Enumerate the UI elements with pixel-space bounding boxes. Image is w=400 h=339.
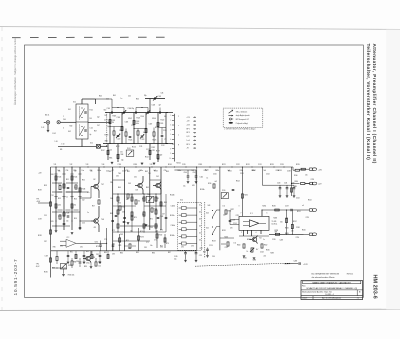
- svg-text:R85: R85: [136, 252, 139, 254]
- svg-text:R54: R54: [74, 199, 77, 201]
- wire cl3 feed caps: [174, 169, 196, 171]
- svg-text:C85: C85: [144, 247, 147, 249]
- capacitor C167: [207, 248, 209, 250]
- svg-text:R76: R76: [166, 243, 169, 245]
- trimmer arrow C102: [153, 96, 157, 100]
- svg-text:R40: R40: [70, 126, 73, 128]
- svg-text:R53: R53: [58, 198, 61, 200]
- stage1 vertical wire 2: [121, 113, 123, 144]
- transistor T48L: [94, 219, 98, 223]
- stage1 lower vertical 3: [149, 144, 151, 161]
- resistor R212: [225, 210, 227, 214]
- svg-text:TL 081: TL 081: [272, 221, 277, 223]
- transistor T50: [138, 183, 142, 187]
- cl2 vertical wire 3: [71, 167, 73, 230]
- wire cluster1 top to relay top: [96, 98, 113, 100]
- input BNC jack outer: [46, 121, 50, 125]
- svg-text:R190 10k: R190 10k: [68, 275, 75, 277]
- resistor R154: [119, 206, 121, 210]
- svg-text:R57: R57: [92, 206, 95, 208]
- wire after coupling box: [100, 145, 106, 147]
- svg-text:R159: R159: [159, 234, 163, 236]
- resistor R115: [113, 131, 115, 135]
- svg-text:4k7: 4k7: [112, 170, 115, 172]
- junction dot relay bottom: [81, 146, 82, 147]
- ground stage1 b: [141, 163, 144, 165]
- svg-text:C101: C101: [107, 108, 111, 110]
- svg-text:C112: C112: [161, 145, 165, 147]
- relay box top stub right: [95, 99, 97, 104]
- cluster1 link wire a: [110, 126, 122, 128]
- svg-text:C148: C148: [160, 216, 164, 218]
- svg-text:R120: R120: [134, 164, 138, 166]
- ground under IC b: [253, 258, 256, 260]
- title block header cell: [303, 281, 361, 284]
- svg-text:R263: R263: [247, 239, 251, 241]
- svg-text:1k: 1k: [247, 251, 249, 253]
- cluster1 dots: [109, 126, 110, 127]
- svg-text:R266: R266: [243, 258, 247, 260]
- trimmer pot P210: [221, 193, 228, 199]
- title block datum column divider: [312, 296, 314, 300]
- svg-text:1k0: 1k0: [58, 170, 61, 172]
- svg-text:C107: C107: [131, 125, 135, 127]
- switch wire b: [217, 226, 220, 228]
- svg-text:120k: 120k: [58, 204, 61, 206]
- ladder right rail: [196, 202, 198, 250]
- svg-text:C214: C214: [233, 223, 237, 225]
- svg-text:C106: C106: [140, 116, 144, 118]
- svg-text:2k2: 2k2: [82, 200, 85, 202]
- wire cl2 h1: [80, 197, 91, 199]
- ground stage1 a: [111, 162, 114, 164]
- stage1 vertical wire 1: [109, 113, 111, 144]
- bottom bus: [51, 250, 197, 252]
- trimmer arrow on C104: [146, 110, 150, 114]
- svg-text:Attenuator, Preamplifier Chann: Attenuator, Preamplifier Channel I (Chan…: [372, 44, 377, 164]
- svg-text:T48: T48: [101, 219, 104, 221]
- svg-text:4p: 4p: [90, 134, 92, 136]
- svg-text:C62a: C62a: [276, 170, 280, 172]
- T48L collector wire: [98, 217, 99, 219]
- svg-text:R67: R67: [142, 199, 145, 201]
- svg-text:R68: R68: [164, 202, 167, 204]
- stage1 vertical wire 4: [145, 113, 147, 144]
- svg-text:C248: C248: [294, 261, 298, 263]
- junction dot stage1: [133, 143, 134, 144]
- input jack ground: [47, 130, 50, 132]
- capacitor C113: [117, 135, 120, 136]
- svg-text:C108: C108: [120, 154, 124, 156]
- resistor R247 vertical: [291, 224, 293, 228]
- capacitor C105: [159, 111, 160, 114]
- svg-text:40V: 40V: [192, 185, 195, 187]
- svg-text:C118: C118: [125, 122, 129, 124]
- svg-text:C238: C238: [287, 171, 291, 173]
- svg-text:R52: R52: [82, 180, 85, 182]
- stage1 lower vertical 1: [107, 144, 109, 161]
- svg-text:C60: C60: [116, 176, 119, 178]
- extra stub wires cluster2: [54, 173, 57, 175]
- svg-text:C54: C54: [82, 223, 85, 225]
- resistor R117: [137, 131, 139, 135]
- svg-text:1n0: 1n0: [234, 243, 237, 245]
- stage1 lower vertical 2: [117, 144, 119, 163]
- svg-text:R60a: R60a: [98, 170, 102, 172]
- svg-text:90k: 90k: [164, 116, 167, 118]
- svg-text:p5: p5: [165, 139, 167, 141]
- svg-text:10.591-203-7: 10.591-203-7: [13, 259, 19, 296]
- resistor R190: [56, 256, 58, 260]
- svg-text:9p1: 9p1: [143, 132, 146, 134]
- svg-text:R252: R252: [308, 200, 312, 202]
- wire cl3 h1: [113, 193, 161, 195]
- relay switch blade lower: [80, 127, 85, 136]
- junction dot row2: [291, 183, 292, 184]
- svg-text:MS: MS: [60, 149, 62, 151]
- relay box top stub: [81, 99, 83, 104]
- svg-text:C 42: C 42: [41, 127, 44, 129]
- svg-text:C248: C248: [296, 227, 300, 229]
- extra cluster9 grounds: [67, 258, 69, 262]
- svg-text:R265: R265: [266, 250, 270, 252]
- resistor R193: [138, 236, 140, 240]
- switch contact dot b1: [212, 226, 213, 227]
- svg-text:C87: C87: [44, 241, 47, 243]
- svg-text:R112: R112: [116, 146, 120, 148]
- svg-text:BU 41: BU 41: [45, 115, 49, 117]
- svg-text:1n: 1n: [121, 98, 123, 100]
- bus junction dot: [174, 166, 175, 167]
- T48L base wire: [91, 220, 94, 222]
- svg-text:MP1: MP1: [105, 140, 108, 142]
- svg-text:R204: R204: [236, 181, 240, 183]
- right margin title line German: [366, 44, 371, 161]
- svg-text:C211: C211: [236, 215, 240, 217]
- trimmer pot P140: [146, 196, 154, 202]
- svg-text:n4: n4: [302, 205, 304, 207]
- svg-text:R56: R56: [74, 218, 77, 220]
- svg-text:C60a: C60a: [204, 170, 208, 172]
- svg-text:R62a: R62a: [178, 170, 182, 172]
- trimmer arrow C115: [140, 134, 144, 138]
- transistor T47: [94, 184, 98, 188]
- resistor R152: [127, 194, 129, 198]
- svg-text:Teilerschalter, Vorverstärker: Teilerschalter, Vorverstärker Kanal I (K…: [366, 44, 371, 161]
- resistor R102: [121, 126, 123, 130]
- legend row 1 symbol (trimmer arrow): [229, 110, 233, 113]
- electrolytic cap C166: [195, 250, 197, 252]
- bus junction dot: [103, 166, 104, 167]
- svg-text:C131: C131: [258, 164, 262, 166]
- resistor R142 on left bus: [50, 258, 52, 262]
- junction dots bus2: [106, 146, 107, 147]
- svg-text:R260: R260: [237, 244, 241, 246]
- page top edge: [0, 27, 400, 30]
- T51 leads: [160, 182, 161, 184]
- svg-text:R59: R59: [74, 170, 77, 172]
- svg-text:S 41: S 41: [90, 143, 93, 145]
- connector pin tick 2: [172, 119, 175, 121]
- svg-text:C105: C105: [117, 117, 121, 119]
- wire under IC: [239, 235, 269, 237]
- junction dot stage1: [109, 143, 110, 144]
- op-amp U2 triangle: [66, 239, 76, 247]
- ground T53: [90, 263, 92, 267]
- capacitor C114: [129, 136, 132, 137]
- svg-text:C81: C81: [80, 247, 83, 249]
- svg-text:1k: 1k: [207, 178, 209, 180]
- ladder contact 4: [182, 228, 187, 231]
- svg-text:C51: C51: [74, 187, 77, 189]
- svg-text:R126: R126: [132, 147, 136, 149]
- svg-text:R127: R127: [156, 151, 160, 153]
- svg-text:220: 220: [223, 215, 226, 217]
- wire to C248: [285, 263, 299, 265]
- capacitor C146: [115, 215, 118, 216]
- IC bottom pin 4: [260, 230, 262, 234]
- svg-text:b1: b1: [199, 205, 201, 207]
- svg-text:R103: R103: [136, 121, 140, 123]
- svg-text:3p9: 3p9: [160, 155, 163, 157]
- svg-text:R64: R64: [118, 187, 121, 189]
- svg-text:R45: R45: [113, 95, 116, 97]
- ground cl2 a: [55, 231, 58, 233]
- op-amp U2 output wire: [76, 242, 107, 244]
- svg-text:5 mV: 5 mV: [186, 140, 190, 142]
- svg-text:R63: R63: [166, 171, 169, 173]
- switch S1b dashed line: [106, 112, 108, 146]
- svg-text:5k6: 5k6: [264, 170, 267, 172]
- svg-text:T49: T49: [148, 173, 151, 175]
- junction dot IC top: [261, 209, 262, 210]
- svg-text:C137: C137: [45, 256, 49, 258]
- svg-text:↔25V: ↔25V: [198, 255, 202, 257]
- bus junction dot: [251, 166, 252, 167]
- svg-text:R144b: R144b: [170, 195, 175, 197]
- svg-text:47µ: 47µ: [174, 258, 177, 260]
- resistor R238 inline: [275, 233, 279, 235]
- svg-text:C59: C59: [164, 170, 167, 172]
- ladder contact 6: [182, 242, 187, 245]
- connector pin tick 6: [172, 138, 175, 140]
- right column vertical: [291, 167, 293, 196]
- svg-text:10n: 10n: [82, 170, 85, 172]
- svg-text:R139: R139: [38, 190, 42, 192]
- svg-text:S45: S45: [206, 228, 209, 230]
- svg-text:R82: R82: [86, 251, 89, 253]
- cl3 vertical wire 1: [112, 167, 114, 251]
- svg-text:C124: C124: [108, 150, 112, 152]
- input coupling circle: [57, 121, 60, 124]
- svg-text:R236: R236: [272, 206, 276, 208]
- svg-text:C200: C200: [213, 174, 217, 176]
- svg-text:22k: 22k: [110, 182, 113, 184]
- cluster1 top stub dots: [117, 107, 118, 108]
- svg-text:R146b: R146b: [170, 235, 175, 237]
- relay contact dots lower: [81, 126, 82, 127]
- junction dot stage1: [121, 143, 122, 144]
- capacitor C148: [157, 217, 160, 218]
- svg-text:C46: C46: [161, 93, 164, 95]
- svg-text:C165: C165: [174, 256, 178, 258]
- cl9 vertical a: [106, 228, 108, 251]
- svg-text:R125: R125: [153, 140, 157, 142]
- T53 leads: [90, 255, 91, 257]
- mechanical coupling box: [97, 144, 101, 148]
- svg-text:10p: 10p: [107, 126, 110, 128]
- svg-text:C141: C141: [193, 172, 197, 174]
- svg-text:C111: C111: [139, 146, 143, 148]
- stage1 top right feed: [145, 98, 165, 100]
- svg-text:C212: C212: [225, 247, 229, 249]
- svg-text:C63: C63: [128, 183, 131, 185]
- svg-text:10n: 10n: [66, 221, 69, 223]
- svg-text:TP1: TP1: [36, 199, 39, 201]
- connector pin tick 9: [172, 153, 175, 155]
- svg-text:C64: C64: [110, 198, 113, 200]
- extra components cluster3: [117, 197, 119, 201]
- svg-text:+12V: +12V: [303, 264, 308, 266]
- resistor R149: [71, 204, 73, 208]
- fold dash line: [12, 36, 166, 38]
- svg-text:1k: 1k: [66, 197, 68, 199]
- svg-text:C68: C68: [120, 234, 123, 236]
- capacitor C143: [63, 223, 66, 224]
- svg-text:IC 1: IC 1: [250, 213, 253, 215]
- cluster1 vert stub e: [161, 128, 163, 135]
- svg-text:R244: R244: [295, 181, 299, 183]
- svg-text:C104 82p: C104 82p: [128, 108, 135, 110]
- resistor R156: [151, 208, 153, 212]
- cl3 vertical wire 3: [149, 167, 151, 230]
- svg-text:C139: C139: [38, 219, 42, 221]
- svg-text:MP 2: MP 2: [186, 128, 190, 130]
- IC top pin wire: [261, 210, 263, 216]
- svg-text:HM 512: HM 512: [347, 274, 353, 276]
- op-amp U1 triangle: [250, 220, 259, 227]
- relay lower cap: [84, 130, 87, 131]
- ladder contact 2: [182, 214, 187, 217]
- connector pin tick 5: [172, 134, 175, 136]
- svg-text:R219: R219: [212, 241, 216, 243]
- svg-text:C80: C80: [60, 246, 63, 248]
- bus junction dot: [185, 166, 186, 167]
- svg-text:C62: C62: [156, 176, 159, 178]
- stage1 vertical wire 6: [165, 113, 167, 144]
- page left edge: [1, 27, 3, 310]
- connector +12V out: [301, 168, 309, 170]
- resistor R232 on IC feed: [241, 194, 243, 198]
- svg-text:10: 10: [169, 158, 171, 160]
- T52 leads: [256, 236, 257, 238]
- svg-text:R46: R46: [136, 99, 139, 101]
- svg-text:R114: R114: [145, 157, 149, 159]
- ground C140: [187, 182, 190, 184]
- svg-text:2n2: 2n2: [154, 170, 157, 172]
- svg-text:C71: C71: [146, 242, 149, 244]
- bus right resistor: [295, 169, 299, 171]
- svg-text:C253: C253: [311, 179, 315, 181]
- resistor R148: [63, 212, 65, 216]
- cl2 vertical wire 1: [55, 167, 57, 230]
- svg-text:K41: K41: [68, 109, 71, 111]
- svg-text:C241: C241: [284, 183, 288, 185]
- junction dots right pair: [286, 209, 287, 210]
- extra vertical stubs cluster3: [117, 194, 119, 232]
- svg-text:+12V: +12V: [186, 117, 190, 119]
- svg-text:R44: R44: [99, 96, 102, 98]
- connector pin tick 3: [172, 124, 175, 126]
- svg-text:R79: R79: [96, 246, 99, 248]
- main supply bus +12V: [51, 166, 294, 168]
- svg-text:C125: C125: [146, 149, 150, 151]
- relay K102 actuator dashed line: [78, 125, 80, 137]
- wire cl3 v-low: [156, 230, 158, 248]
- svg-text:R62: R62: [145, 171, 148, 173]
- svg-text:C88: C88: [76, 261, 79, 263]
- svg-text:IC 2: IC 2: [67, 237, 70, 239]
- junction dot stage1: [157, 143, 158, 144]
- ladder contact 5: [182, 235, 187, 238]
- cl5 vertical bus: [219, 167, 221, 250]
- svg-text:R122: R122: [161, 120, 165, 122]
- resistor R144: [63, 184, 65, 188]
- connector pin tick 1: [172, 115, 175, 117]
- page right shadow: [386, 30, 400, 310]
- trimmer arrow on C102: [122, 110, 126, 114]
- resistor R118: [153, 132, 155, 136]
- cl8 vertical from bus: [261, 167, 263, 185]
- TP1 stub wire: [38, 202, 51, 204]
- svg-text:C123: C123: [141, 139, 145, 141]
- connector pin tick 8: [172, 148, 175, 150]
- svg-text:R247: R247: [293, 221, 297, 223]
- svg-text:R81: R81: [70, 252, 73, 254]
- svg-text:R143: R143: [58, 176, 62, 178]
- svg-text:R101: R101: [112, 120, 116, 122]
- capacitor C116: [161, 135, 164, 136]
- svg-text:R217: R217: [231, 209, 235, 211]
- IC bottom pin 2: [247, 230, 249, 234]
- svg-text:C67: C67: [162, 214, 165, 216]
- svg-text:MS 41: MS 41: [177, 163, 182, 165]
- resistor R150: [98, 200, 100, 204]
- svg-text:R83: R83: [104, 252, 107, 254]
- svg-text:413: 413: [94, 227, 97, 229]
- relay box K101: [76, 104, 88, 139]
- mechanical link wire: [58, 145, 96, 147]
- resistor R108: [117, 154, 119, 158]
- svg-text:1k8: 1k8: [136, 190, 139, 192]
- left vertical bus: [50, 167, 52, 278]
- svg-text:R55: R55: [51, 221, 54, 223]
- svg-text:C144b: C144b: [171, 225, 176, 227]
- svg-text:C93: C93: [191, 246, 194, 248]
- svg-text:C240: C240: [277, 183, 281, 185]
- svg-text:R 41: R 41: [90, 110, 93, 112]
- svg-text:470: 470: [230, 228, 233, 230]
- svg-text:Bei GERÄTEN MIT VERSION: Bei GERÄTEN MIT VERSION: [311, 272, 339, 275]
- cluster1 link wire c: [158, 127, 166, 129]
- resistor R107: [107, 150, 109, 154]
- bus junction dot: [242, 166, 243, 167]
- svg-text:R93: R93: [203, 252, 206, 254]
- resistor R155: [131, 212, 133, 216]
- svg-text:P101: P101: [127, 148, 131, 150]
- op-amp U1 box: [239, 216, 269, 230]
- svg-text:C140: C140: [184, 172, 188, 174]
